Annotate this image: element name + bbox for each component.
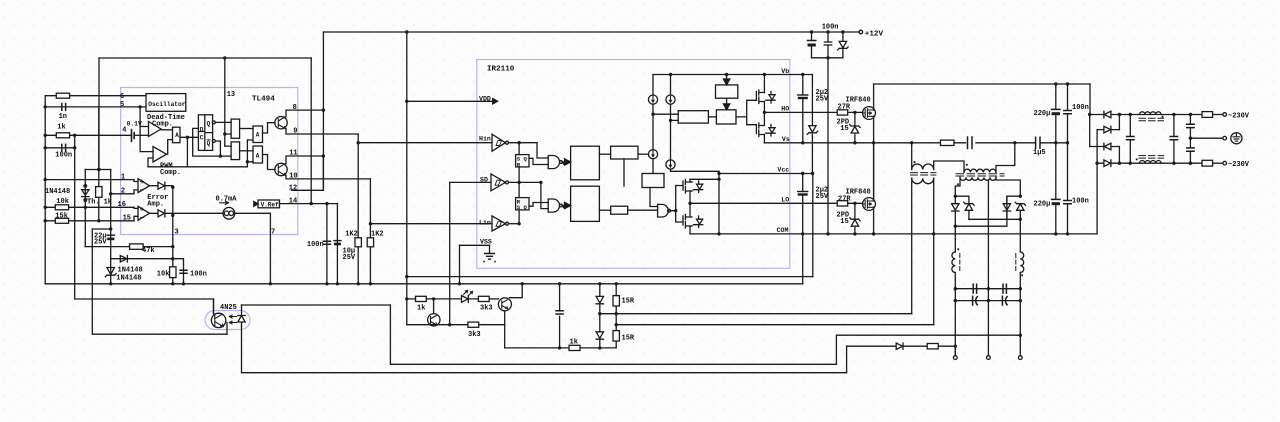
UV box to gate wire bbox=[650, 188, 658, 207]
pin4 1k resistor bbox=[56, 133, 69, 138]
bootstrap diode bbox=[807, 126, 817, 135]
AC2 diode pair column wire bbox=[1118, 147, 1120, 164]
svg-text:100n: 100n bbox=[822, 24, 839, 32]
secondary left end wire bbox=[955, 177, 960, 196]
svg-text:220µ: 220µ bbox=[1034, 110, 1051, 118]
V.Ref box bbox=[258, 200, 280, 208]
1u5 coupling capacitor bbox=[1036, 137, 1040, 148]
pin4 RC column to optocoupler collector wire bbox=[75, 135, 214, 313]
svg-text:~230V: ~230V bbox=[1228, 161, 1250, 169]
steering AND box 1 bbox=[231, 119, 240, 138]
current source 4 (low) bbox=[666, 160, 675, 169]
optocoupler 4N25 body outline bbox=[205, 311, 250, 330]
earth wire bbox=[1190, 137, 1222, 139]
current source column 2 wire bbox=[670, 75, 672, 172]
Qbar output wire bbox=[215, 141, 220, 156]
opto2 emitter wire bbox=[407, 324, 505, 326]
thermistor network top wire bbox=[85, 169, 110, 171]
svg-text:Hin: Hin bbox=[479, 135, 491, 142]
NAND gate 2 bbox=[548, 199, 559, 212]
sense wire with diode and resistor bbox=[847, 345, 956, 347]
svg-text:1N4148: 1N4148 bbox=[45, 188, 70, 196]
svg-text:6: 6 bbox=[120, 93, 124, 101]
fuse 2 bbox=[1202, 160, 1213, 166]
NAND2 arrow into level shifter bbox=[562, 202, 570, 208]
svg-text:14: 14 bbox=[289, 198, 297, 206]
4N25 LED arrows bbox=[230, 315, 237, 324]
left output rail column wire bbox=[954, 226, 956, 356]
220u bus capacitor top bbox=[1052, 108, 1060, 110]
svg-text:C: C bbox=[200, 135, 204, 142]
3k3 series resistor low bbox=[468, 322, 479, 327]
svg-text:VSS: VSS bbox=[480, 239, 492, 246]
svg-text:1: 1 bbox=[121, 174, 125, 182]
opto3 collector wire to ground rail bbox=[510, 284, 523, 298]
IR2110 IC boundary box (light blue) bbox=[477, 60, 790, 269]
svg-text:Comp.: Comp. bbox=[152, 120, 173, 128]
IRF840 low source wire bbox=[873, 207, 875, 234]
svg-text:1k: 1k bbox=[57, 124, 65, 132]
undervoltage detect box bbox=[642, 174, 664, 188]
V.Ref loop left column wire bbox=[98, 58, 100, 170]
high totem lower MOSFET bbox=[756, 123, 764, 137]
level shifter to latch wire bbox=[708, 116, 716, 118]
X capacitor 1 column wire bbox=[1129, 115, 1131, 164]
gate output to totem gates wire bbox=[670, 186, 683, 223]
left ground column wire bbox=[44, 96, 46, 284]
pin 4 wire after battery bbox=[136, 134, 149, 136]
svg-text:Oscillator: Oscillator bbox=[148, 101, 185, 108]
1K2 pulldown resistor pin10 bbox=[367, 238, 373, 247]
15R column wire bbox=[615, 284, 617, 348]
V.Ref distribution top wire bbox=[99, 57, 311, 59]
svg-text:1k: 1k bbox=[417, 305, 425, 313]
snubber resistor bbox=[941, 140, 955, 145]
current source 1 (high) bbox=[648, 95, 657, 104]
high side pulse filter box bbox=[571, 146, 600, 180]
primary polarity dot bbox=[966, 164, 968, 166]
bootstrap 2u2 capacitor column wire bbox=[802, 75, 804, 143]
gate resistor 27R high bbox=[837, 110, 848, 115]
pin3 compensation column wire bbox=[172, 187, 174, 284]
component value and pin labels bbox=[45, 24, 1250, 347]
svg-text:4N25: 4N25 bbox=[220, 304, 237, 312]
pin2 feedback column wire bbox=[110, 170, 112, 259]
bootstrap 2u2 25V capacitor bbox=[798, 94, 808, 96]
svg-text:Q: Q bbox=[207, 121, 211, 128]
pin 1 wire bbox=[45, 179, 134, 181]
svg-text:1N4148: 1N4148 bbox=[116, 275, 141, 283]
bridge diode D4 bbox=[1097, 160, 1119, 167]
high latch box bbox=[716, 110, 736, 124]
220u bus capacitor bottom bbox=[1052, 198, 1060, 200]
svg-text:16: 16 bbox=[118, 201, 126, 209]
divider midpoint wire bbox=[1041, 142, 1068, 144]
svg-text:4: 4 bbox=[122, 127, 126, 135]
high gate node wire bbox=[848, 111, 863, 113]
gate zener ZPD15 high column wire bbox=[854, 112, 856, 142]
svg-text:A: A bbox=[175, 132, 179, 139]
svg-text:1n: 1n bbox=[59, 113, 67, 121]
svg-text:Vs: Vs bbox=[782, 136, 790, 143]
svg-text:27R: 27R bbox=[838, 196, 851, 204]
ground rail to COM riser wire bbox=[802, 234, 804, 284]
clamp zener B bbox=[964, 202, 974, 219]
svg-text:+12V: +12V bbox=[865, 31, 884, 39]
svg-text:1k: 1k bbox=[104, 199, 112, 207]
pin5 1n timing capacitor bbox=[62, 104, 66, 111]
svg-text:100n: 100n bbox=[190, 271, 207, 279]
AC line 2 wire bbox=[1119, 162, 1202, 164]
current source 3 (low) bbox=[648, 150, 657, 159]
current transformer secondary winding bbox=[912, 178, 934, 184]
svg-text:12: 12 bbox=[289, 185, 297, 193]
LO node wire bbox=[690, 191, 692, 216]
LED bottom column wire bbox=[242, 327, 847, 373]
svg-text:VDD: VDD bbox=[479, 96, 491, 103]
opto3 3k3 resistor bbox=[478, 296, 489, 301]
opto3 LED arrows bbox=[464, 291, 473, 296]
svg-text:15R: 15R bbox=[622, 335, 635, 343]
svg-text:1K2: 1K2 bbox=[371, 231, 384, 239]
opto2 1k wire bbox=[407, 298, 462, 300]
pulse latch 2 box bbox=[516, 198, 529, 210]
svg-text:25V: 25V bbox=[343, 254, 356, 262]
pin 10 emitter wire bbox=[286, 175, 370, 179]
svg-text:~230V: ~230V bbox=[1228, 113, 1250, 121]
VSS ground symbol bbox=[489, 245, 491, 253]
transistor Q2 bbox=[275, 163, 287, 175]
gate resistor 27R low bbox=[837, 201, 848, 206]
10k comp resistor (vertical) bbox=[170, 267, 176, 278]
bus negative riser wire bbox=[1096, 163, 1098, 234]
15R resistor 1 bbox=[613, 296, 619, 306]
svg-text:10k: 10k bbox=[56, 198, 69, 206]
+12V terminal bbox=[859, 30, 863, 34]
earth terminal bbox=[1223, 136, 1227, 140]
main transformer primary winding bbox=[964, 169, 996, 172]
snubber capacitor bbox=[968, 137, 973, 149]
Lin wire bbox=[370, 223, 492, 225]
1N4148 feedback diode bbox=[120, 256, 127, 263]
svg-text:V.Ref: V.Ref bbox=[261, 201, 279, 208]
pin 5 wire bbox=[45, 106, 146, 108]
CT sense wire lower bbox=[616, 324, 934, 326]
svg-text:Vcc: Vcc bbox=[777, 167, 789, 174]
Y capacitor 1 bbox=[1187, 124, 1194, 127]
svg-text:9: 9 bbox=[293, 128, 297, 136]
error amp 2 output diode bbox=[150, 210, 173, 217]
svg-text:3: 3 bbox=[175, 229, 179, 237]
100n bus capacitor bottom bbox=[1064, 201, 1071, 204]
MOSFET IRF840 low bbox=[863, 198, 876, 211]
bus positive riser wire bbox=[1089, 84, 1091, 115]
mains terminal 1 bbox=[1223, 113, 1227, 117]
protection diode column wire bbox=[599, 284, 601, 348]
pin1 jog wire bbox=[134, 180, 138, 221]
low totem upper FET drain wire bbox=[690, 179, 692, 182]
pin 6 wire bbox=[45, 95, 146, 97]
sense return riser wire bbox=[846, 346, 848, 373]
sense 1k resistor bbox=[569, 345, 580, 350]
CM choke bottom core bbox=[1139, 156, 1164, 159]
pulse latch 1 box bbox=[516, 155, 529, 167]
steering AND box 2 bbox=[231, 142, 240, 160]
Y capacitor column wire bbox=[1189, 115, 1191, 164]
pulse detector box bbox=[716, 85, 738, 98]
Vcc feed wire from +12V bbox=[812, 174, 814, 277]
clamp cross wire lower bbox=[955, 196, 1020, 226]
output filter cap row 1 wire bbox=[955, 288, 1020, 290]
clamp group left top wire bbox=[955, 196, 969, 203]
V.Ref loop right column wire bbox=[310, 58, 312, 204]
error amp 1 output diode bbox=[150, 182, 173, 189]
svg-text:25V: 25V bbox=[816, 193, 829, 201]
+12V filter ground wire bbox=[812, 57, 843, 59]
main transformer secondary winding bbox=[960, 177, 996, 180]
pin 2 wire bbox=[111, 193, 134, 195]
sense resistor bbox=[927, 344, 938, 349]
0.7mA current source symbol bbox=[223, 207, 235, 219]
main transformer core bbox=[956, 174, 1004, 176]
pulse detector arrow from Vb bbox=[723, 75, 729, 85]
VDD wire with arrow bbox=[407, 100, 492, 102]
secondary polarity dot bbox=[957, 183, 959, 185]
ground rail wire bbox=[45, 283, 803, 285]
svg-text:100n: 100n bbox=[55, 152, 72, 160]
VSS column to ground rail wire bbox=[459, 245, 461, 283]
X capacitor 2 bbox=[1170, 137, 1177, 140]
Lin schmitt buffer bbox=[492, 216, 506, 231]
1K2 pulldown resistor pin9 bbox=[355, 238, 361, 247]
snubber wire bbox=[954, 142, 1035, 144]
CM choke bottom winding bbox=[1140, 160, 1162, 163]
arrow into latch box bbox=[723, 98, 729, 110]
pin10 column to Lin wire bbox=[369, 179, 371, 284]
opto emitter return column wire bbox=[92, 229, 227, 334]
CM choke top core bbox=[1139, 118, 1164, 121]
4N25 phototransistor bbox=[211, 313, 225, 327]
low side current source feed wire bbox=[671, 170, 720, 172]
CT secondary left column wire bbox=[911, 178, 913, 314]
SD wire bbox=[450, 181, 491, 183]
LED top feedback wire bbox=[242, 304, 391, 306]
svg-text:15R: 15R bbox=[622, 298, 635, 306]
svg-text:A: A bbox=[256, 153, 260, 160]
22u 25V electrolytic capacitor bbox=[107, 234, 114, 236]
47k wire bbox=[85, 246, 173, 248]
bus divider column 2 wire bbox=[1067, 84, 1069, 234]
output terminal sense bbox=[953, 356, 957, 360]
current source 2 (high) bbox=[666, 95, 675, 104]
svg-text:15: 15 bbox=[840, 218, 848, 226]
feedback wire through 0.7mA source bbox=[173, 212, 271, 214]
svg-text:100n: 100n bbox=[1072, 198, 1089, 206]
100n reference cap column wire bbox=[326, 204, 328, 284]
CT primary out wire to main primary bbox=[934, 161, 964, 172]
output inductor L1 bbox=[952, 252, 955, 272]
bridge diode D3 bbox=[1090, 143, 1120, 150]
high signal box3 bbox=[611, 146, 638, 159]
svg-text:S Q: S Q bbox=[517, 204, 528, 211]
bus divider column 1 wire bbox=[1055, 84, 1057, 234]
blanking stub to A output gates wire bbox=[247, 140, 253, 162]
low totem lower MOSFET bbox=[683, 215, 692, 229]
sense diode bbox=[896, 343, 903, 349]
output cap 3 polarized bbox=[973, 296, 978, 305]
svg-text:15: 15 bbox=[123, 215, 131, 223]
rectifier positive column wire bbox=[1089, 115, 1091, 147]
Q2 base wire bbox=[263, 155, 276, 170]
svg-text:7: 7 bbox=[271, 229, 275, 237]
100n comp capacitor bbox=[180, 270, 187, 273]
svg-text:3k3: 3k3 bbox=[468, 331, 481, 339]
AC line 1 wire bbox=[1119, 114, 1202, 116]
svg-text:Th.: Th. bbox=[87, 199, 100, 207]
low totem drain feed wire bbox=[690, 178, 719, 180]
PWM comparator triangle bbox=[153, 147, 167, 163]
flip-flop divider bbox=[198, 115, 212, 151]
svg-text:LO: LO bbox=[781, 196, 789, 203]
0.1V battery symbol bbox=[132, 130, 135, 142]
svg-text:Amp.: Amp. bbox=[147, 201, 164, 209]
bridge negative column wire bbox=[1096, 130, 1098, 164]
output terminal 2 bbox=[1018, 356, 1022, 360]
level shifter input wires bbox=[653, 114, 678, 120]
DTC plus input stub wire bbox=[140, 126, 148, 128]
svg-text:A: A bbox=[256, 132, 260, 139]
opto2 collector 1k resistor bbox=[416, 296, 427, 301]
output A gate 1 box bbox=[253, 126, 263, 143]
fuse 1 bbox=[1202, 112, 1213, 118]
Q output bubble bbox=[212, 121, 215, 124]
current source column 1 wire bbox=[652, 75, 654, 174]
bootstrap diode column wire bbox=[811, 75, 813, 174]
47k resistor bbox=[130, 244, 144, 249]
CM choke top winding bbox=[1140, 112, 1162, 115]
low totem source to COM wire bbox=[690, 226, 692, 234]
current transformer polarity dot bbox=[914, 161, 916, 163]
svg-text:220µ: 220µ bbox=[1034, 201, 1051, 209]
SD output wire bbox=[509, 181, 541, 183]
svg-text:Lin: Lin bbox=[479, 220, 491, 227]
bridge diode D1 bbox=[1090, 111, 1120, 118]
opto emitter column wire bbox=[226, 323, 228, 335]
thermistor Th 1k bbox=[82, 190, 89, 197]
secondary right end wire bbox=[996, 177, 1020, 196]
0.7mA arrow bbox=[220, 201, 229, 204]
output filter cap row 2 wire bbox=[955, 300, 1020, 302]
10u 25V electrolytic on V.Ref bbox=[334, 240, 341, 242]
pin 13 column wire bbox=[224, 58, 226, 146]
X capacitor 2 column wire bbox=[1173, 115, 1175, 164]
sense column wire bbox=[954, 346, 956, 356]
Hin to latch1 column wire bbox=[518, 143, 520, 155]
oscillator box bbox=[146, 94, 186, 112]
A gate output wire to flip-flop bbox=[180, 136, 198, 138]
+12V 100n capacitor bbox=[824, 32, 831, 58]
box3 input wire bbox=[599, 153, 610, 155]
svg-text:1µ5: 1µ5 bbox=[1033, 149, 1046, 157]
Qbar output bubble bbox=[212, 140, 215, 143]
earth symbol bbox=[1231, 133, 1242, 144]
dead-time comparator triangle bbox=[149, 122, 162, 137]
svg-text:25V: 25V bbox=[816, 96, 829, 104]
high totem lower FET source wire bbox=[763, 135, 765, 143]
Hin output wire bbox=[509, 142, 538, 144]
pin6 timing resistor bbox=[56, 93, 69, 98]
primary right junction column wire bbox=[996, 143, 1015, 173]
100n pin4 parallel wire bbox=[45, 147, 74, 149]
sense capacitor bbox=[556, 311, 563, 314]
Vcc wire bbox=[719, 173, 813, 175]
clamp diode A bbox=[952, 196, 959, 226]
dead-time blanking wire bbox=[148, 137, 247, 167]
pulse steering A gate 1 box bbox=[173, 127, 181, 143]
+12V zener diode bbox=[838, 32, 848, 58]
svg-text:IR2110: IR2110 bbox=[487, 66, 515, 74]
1N4148 zener to ground bbox=[105, 268, 116, 277]
low side gate bbox=[658, 204, 669, 217]
VDD arrowhead bbox=[492, 98, 499, 106]
latch2 Q to NAND2 wire bbox=[529, 203, 548, 207]
CT secondary right column wire bbox=[933, 178, 935, 325]
svg-text:COM: COM bbox=[777, 227, 789, 234]
zener column to ground wire bbox=[110, 259, 112, 284]
svg-text:Comp.: Comp. bbox=[160, 169, 181, 177]
svg-text:5: 5 bbox=[120, 101, 124, 109]
low side delay box bbox=[571, 186, 600, 221]
COM wire bbox=[690, 233, 1097, 235]
error amp 1 triangle bbox=[138, 179, 150, 193]
MOSFET IRF840 high bbox=[863, 107, 876, 120]
internal gate resistor box bbox=[611, 206, 628, 214]
svg-text:15k: 15k bbox=[55, 213, 68, 221]
latch to gate wire bbox=[736, 100, 756, 124]
NAND gate 1 bbox=[548, 156, 559, 169]
svg-text:1k: 1k bbox=[570, 339, 578, 347]
DC bus positive wire bbox=[874, 83, 1090, 85]
Q output wire bbox=[215, 121, 231, 123]
svg-text:1K2: 1K2 bbox=[345, 231, 358, 239]
reference decoupling corner column wire bbox=[336, 204, 338, 284]
svg-text:13: 13 bbox=[227, 91, 235, 99]
svg-text:1N4148: 1N4148 bbox=[118, 267, 143, 275]
15k resistor pin15 bbox=[55, 218, 68, 223]
svg-text:100n: 100n bbox=[1072, 104, 1089, 112]
IR2110 Hin schmitt buffer bbox=[492, 134, 506, 151]
HO node wire bbox=[763, 102, 765, 125]
latch2 to Lin column wire bbox=[518, 210, 520, 224]
clamp cross wire upper bbox=[969, 218, 1020, 220]
level shifter wide box bbox=[678, 111, 708, 123]
PWM comp output wire bbox=[167, 140, 173, 155]
half bridge mid column wire bbox=[873, 143, 875, 201]
svg-text:100n: 100n bbox=[307, 241, 324, 249]
pin 8 collector wire bbox=[286, 110, 323, 117]
Q1 base wire bbox=[263, 123, 276, 133]
delay box to resistor wire bbox=[599, 209, 610, 211]
NAND1 arrow into level shifter bbox=[562, 159, 570, 165]
15R resistor 2 bbox=[613, 331, 619, 341]
svg-text:TL494: TL494 bbox=[252, 96, 275, 104]
opto3 LED bbox=[462, 296, 479, 303]
pin 9 emitter wire bbox=[286, 129, 358, 135]
svg-text:SD: SD bbox=[480, 177, 488, 184]
opto3 wire to transistor bbox=[489, 298, 498, 300]
IRF840 high source wire bbox=[873, 116, 875, 143]
transistor Q1 bbox=[275, 117, 287, 129]
